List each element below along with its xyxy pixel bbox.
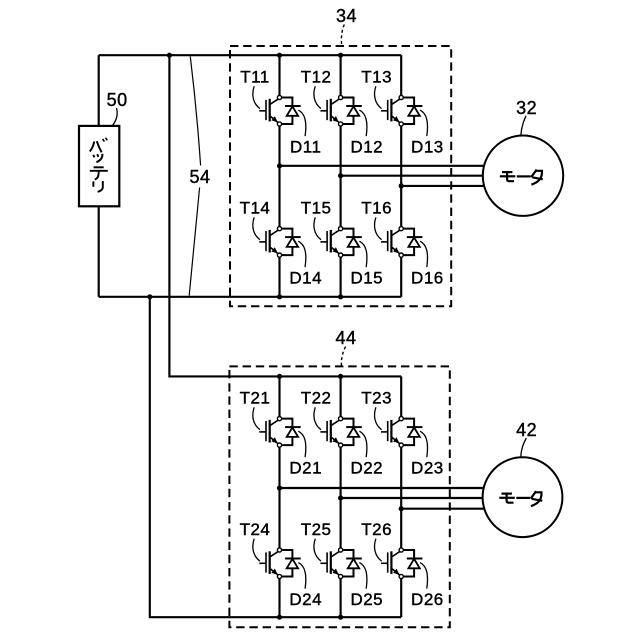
transistor T13 (381, 99, 400, 123)
label D25 (350, 563, 383, 610)
label T23 (361, 389, 392, 430)
label 44 (inverter) (335, 328, 356, 366)
junction node (147, 294, 152, 299)
battery text ッ (93, 154, 102, 162)
wire: motor 42 phase line 2 (341, 497, 486, 499)
battery text テ (90, 167, 108, 179)
label 34 (inverter) (336, 6, 357, 45)
label 42 (motor) (516, 420, 537, 457)
motor 42 (483, 457, 563, 537)
svg-text:T24: T24 (240, 520, 271, 539)
diode D13 (399, 95, 422, 126)
transistor T21 (259, 420, 278, 444)
svg-text:D22: D22 (350, 459, 383, 478)
wire: top bus from battery + to inverter 34 upper rail (99, 54, 402, 56)
transistor T24 (259, 551, 278, 575)
svg-text:D14: D14 (289, 269, 322, 288)
label D26 (411, 563, 444, 610)
wire: motor 42 phase line 3 (401, 508, 486, 510)
wire: motor 32 phase line 2 (341, 175, 486, 177)
motor 42 text モータ (499, 491, 542, 506)
svg-text:T21: T21 (240, 389, 271, 408)
svg-text:T12: T12 (301, 68, 332, 87)
diode D22 (339, 417, 362, 448)
transistor T15 (320, 230, 339, 254)
label T22 (301, 389, 332, 430)
junction node (277, 374, 282, 379)
wire: inverter44 right (W) phase leg (400, 376, 402, 416)
svg-text:T15: T15 (301, 199, 332, 218)
wire: battery negative lead (98, 206, 100, 296)
junction node (338, 495, 343, 500)
label D11 (290, 110, 321, 157)
label D21 (289, 431, 322, 478)
transistor T25 (320, 551, 339, 575)
junction node (338, 53, 343, 58)
battery 50 box (79, 126, 119, 206)
label D15 (350, 241, 383, 288)
svg-text:T25: T25 (301, 520, 332, 539)
transistor T26 (381, 551, 400, 575)
wire: inverter34 left (U) phase leg (278, 55, 280, 95)
label T15 (301, 199, 332, 240)
svg-text:D15: D15 (350, 269, 383, 288)
label T13 (361, 68, 392, 109)
label T16 (361, 199, 392, 240)
svg-text:T26: T26 (361, 520, 392, 539)
svg-text:D11: D11 (290, 138, 321, 157)
junction node (338, 374, 343, 379)
label D22 (350, 431, 383, 478)
wire: motor 32 phase line 1 (280, 165, 487, 167)
transistor T22 (320, 420, 339, 444)
label D16 (411, 241, 444, 288)
svg-text:T14: T14 (240, 199, 271, 218)
junction node (167, 53, 172, 58)
label T26 (361, 520, 392, 561)
wire: positive branch down to inverter 44 (169, 55, 401, 376)
junction node (338, 615, 343, 620)
diode D12 (339, 95, 362, 126)
transistor T23 (381, 420, 400, 444)
wire: inverter34 middle (V) phase leg (340, 55, 342, 95)
battery text バ (90, 138, 108, 153)
svg-text:T22: T22 (301, 389, 332, 408)
label T21 (240, 389, 271, 430)
svg-text:D26: D26 (411, 590, 444, 609)
svg-text:D12: D12 (350, 138, 383, 157)
label T12 (301, 68, 332, 109)
svg-text:T16: T16 (361, 199, 392, 218)
label T25 (301, 520, 332, 561)
svg-text:T13: T13 (361, 68, 392, 87)
wire: inverter44 middle (V) phase leg (340, 376, 342, 416)
wire: motor 42 phase line 1 (280, 487, 487, 489)
label T11 (240, 68, 270, 109)
junction node (338, 294, 343, 299)
inverter block 34 dashed box (230, 46, 451, 306)
svg-text:54: 54 (189, 167, 210, 187)
junction node (277, 53, 282, 58)
svg-text:D16: D16 (411, 269, 444, 288)
wire: inverter34 right (W) phase leg (400, 55, 402, 95)
svg-text:T11: T11 (240, 68, 270, 87)
label T24 (240, 520, 271, 561)
wire: motor 32 phase line 3 (401, 185, 486, 187)
wire: inverter44 left (U) phase leg (278, 376, 280, 416)
diode D14 (277, 227, 300, 258)
label D14 (289, 241, 322, 288)
diode D15 (339, 227, 362, 258)
svg-text:44: 44 (335, 328, 356, 348)
svg-text:42: 42 (516, 420, 537, 440)
transistor T11 (259, 99, 278, 123)
svg-text:T23: T23 (361, 389, 392, 408)
transistor T12 (320, 99, 339, 123)
svg-text:50: 50 (107, 90, 128, 110)
label D12 (350, 110, 383, 157)
svg-text:D13: D13 (411, 138, 444, 157)
diode D24 (277, 548, 300, 579)
junction node (399, 506, 404, 511)
svg-text:32: 32 (516, 98, 537, 118)
label D24 (289, 563, 322, 610)
junction node (277, 615, 282, 620)
junction node (277, 485, 282, 490)
junction node (277, 294, 282, 299)
svg-text:34: 34 (336, 6, 357, 26)
label D13 (411, 110, 444, 157)
diode D23 (399, 417, 422, 448)
label 50 (battery) (107, 90, 128, 126)
diode D11 (277, 95, 300, 126)
motor 32 (483, 136, 563, 216)
motor 32 text モータ (500, 170, 543, 185)
diode D21 (277, 417, 300, 448)
label 54 (bus lines) (189, 57, 210, 296)
junction node (338, 173, 343, 178)
wire: negative branch down to inverter 44 (150, 297, 401, 617)
inverter block 44 dashed box (229, 366, 449, 627)
junction node (399, 183, 404, 188)
label D23 (411, 431, 444, 478)
svg-text:D23: D23 (411, 459, 444, 478)
diode D25 (339, 548, 362, 579)
label 32 (motor) (516, 98, 537, 135)
junction node (277, 163, 282, 168)
wire: bottom bus to inverter 34 lower rail (99, 296, 402, 298)
svg-text:D21: D21 (289, 459, 322, 478)
label T14 (240, 199, 271, 240)
svg-text:D25: D25 (350, 590, 383, 609)
diode D26 (399, 548, 422, 579)
battery text リ (93, 181, 102, 192)
diode D16 (399, 227, 422, 258)
svg-text:D24: D24 (289, 590, 322, 609)
transistor T14 (259, 230, 278, 254)
wire: battery positive lead (98, 55, 100, 126)
transistor T16 (381, 230, 400, 254)
